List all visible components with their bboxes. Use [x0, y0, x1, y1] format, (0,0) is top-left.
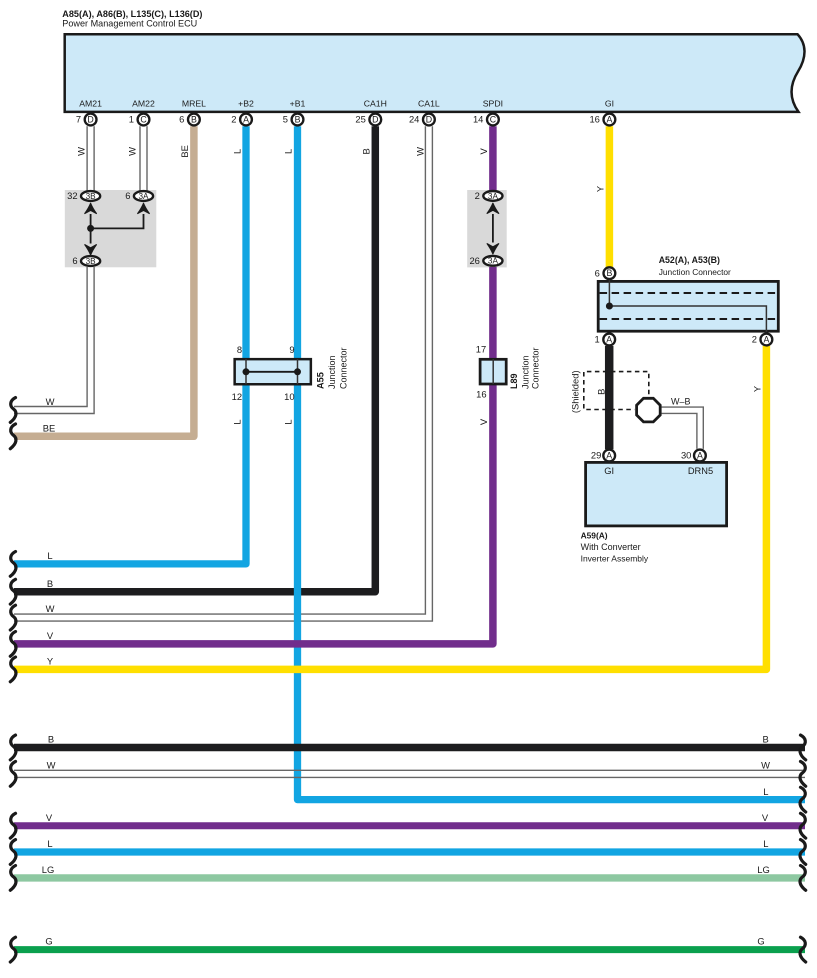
svg-text:W–B: W–B — [671, 397, 691, 407]
svg-text:6: 6 — [72, 255, 77, 266]
svg-text:GI: GI — [605, 99, 614, 109]
bus L bottom — [14, 848, 805, 855]
svg-text:LG: LG — [42, 864, 55, 875]
pin 30(A) of A59 — [681, 450, 706, 462]
svg-text:3B: 3B — [86, 257, 97, 266]
svg-text:6: 6 — [595, 267, 600, 278]
svg-text:Junction Connector: Junction Connector — [659, 267, 731, 277]
svg-text:B: B — [47, 578, 53, 589]
wire B from CA1H to left edge — [14, 126, 375, 592]
svg-text:3B: 3B — [86, 192, 97, 201]
wire Y from A52 pin 2(A) to left edge — [14, 346, 766, 670]
svg-text:26: 26 — [469, 255, 479, 266]
connector oval 6(3A) — [125, 190, 153, 201]
svg-text:V: V — [478, 148, 489, 155]
svg-text:16: 16 — [476, 388, 486, 399]
wire L from +B1 through A55 down to bottom right bus — [298, 126, 806, 799]
junction connector A55 — [232, 344, 349, 402]
connector oval 32(3B) — [67, 190, 100, 201]
svg-text:W: W — [414, 147, 425, 156]
svg-text:BE: BE — [43, 422, 56, 433]
svg-text:AM22: AM22 — [132, 99, 155, 109]
svg-text:G: G — [45, 936, 52, 947]
connector oval 6(3B) — [72, 255, 100, 266]
svg-text:8: 8 — [237, 344, 242, 355]
svg-text:25: 25 — [355, 114, 365, 125]
junction connector A52(A), A53(B) — [598, 255, 778, 332]
svg-text:5: 5 — [283, 114, 288, 125]
svg-text:B: B — [295, 115, 301, 125]
pin +B1 5(B) — [283, 99, 306, 126]
connector oval 26(3A) — [469, 255, 502, 266]
svg-text:B: B — [606, 268, 612, 278]
left break squiggles — [10, 398, 16, 962]
svg-text:LG: LG — [757, 864, 770, 875]
svg-text:9: 9 — [289, 344, 294, 355]
bus LG bottom — [14, 874, 805, 881]
svg-text:2: 2 — [752, 334, 757, 345]
svg-text:Connector: Connector — [339, 347, 349, 389]
svg-text:D: D — [372, 115, 378, 125]
svg-text:29: 29 — [591, 450, 601, 461]
svg-text:Y: Y — [47, 656, 54, 667]
svg-text:L: L — [47, 838, 52, 849]
pin CA1H 25(D) — [355, 99, 387, 126]
bus G bottom — [14, 946, 805, 953]
svg-text:CA1L: CA1L — [418, 99, 440, 109]
svg-text:1: 1 — [129, 114, 134, 125]
arrow up into 6(3A) — [138, 203, 150, 213]
svg-text:A: A — [243, 115, 249, 125]
pin 6(B) of A52 — [595, 267, 616, 279]
svg-text:DRN5: DRN5 — [688, 466, 713, 476]
ECU title A85(A), A86(B), L135(C), L136(D) — [62, 9, 202, 28]
svg-text:3A: 3A — [488, 257, 499, 266]
wire W-B from shield to 30(A) — [662, 407, 704, 449]
svg-text:B: B — [191, 115, 197, 125]
svg-text:16: 16 — [589, 114, 599, 125]
svg-text:GI: GI — [604, 466, 614, 476]
A59 With Converter Inverter Assembly box — [581, 462, 727, 563]
svg-text:30: 30 — [681, 450, 691, 461]
arrow up into 32(3B) — [85, 203, 97, 213]
svg-text:Y: Y — [751, 385, 762, 392]
svg-text:D: D — [87, 115, 93, 125]
svg-text:With Converter: With Converter — [581, 542, 641, 552]
svg-text:L: L — [283, 419, 294, 424]
svg-text:C: C — [140, 115, 147, 125]
svg-text:W: W — [127, 147, 138, 156]
svg-text:Power Management Control ECU: Power Management Control ECU — [62, 19, 197, 29]
svg-text:L: L — [283, 149, 294, 154]
pin 2(A) of A52 — [752, 334, 773, 346]
svg-text:B: B — [361, 148, 372, 154]
svg-text:1: 1 — [594, 334, 599, 345]
svg-text:D: D — [426, 115, 432, 125]
svg-text:L: L — [763, 838, 768, 849]
svg-text:A: A — [606, 115, 612, 125]
svg-text:B: B — [762, 734, 768, 745]
svg-text:Junction: Junction — [327, 355, 337, 389]
svg-text:10: 10 — [284, 391, 294, 402]
wire W from AM21 to 32(3B) — [87, 126, 94, 190]
svg-text:+B1: +B1 — [290, 99, 306, 109]
pin +B2 2(A) — [231, 99, 254, 126]
svg-text:L: L — [47, 550, 52, 561]
wire B shielded from 1(A) to 29(A) — [605, 346, 614, 449]
wire Y from GI to A52 pin 6(B) — [606, 126, 614, 267]
svg-text:Inverter Assembly: Inverter Assembly — [581, 553, 649, 563]
svg-text:2: 2 — [475, 190, 480, 201]
shield dashed box — [584, 372, 649, 410]
svg-text:A55: A55 — [316, 372, 326, 389]
right break squiggles — [800, 735, 806, 962]
svg-text:B: B — [595, 389, 606, 395]
wire BE from MREL to left edge — [14, 126, 194, 436]
svg-text:A: A — [606, 335, 612, 345]
svg-text:L: L — [763, 786, 768, 797]
svg-text:B: B — [48, 734, 54, 745]
svg-text:2: 2 — [231, 114, 236, 125]
svg-text:W: W — [46, 396, 55, 407]
wire W from 6(3B) to left edge — [14, 267, 94, 414]
pin 1(A) of A52 — [594, 334, 615, 346]
arrow down into 26(3A) — [487, 244, 499, 254]
svg-text:A: A — [697, 451, 703, 461]
svg-text:CA1H: CA1H — [364, 99, 387, 109]
svg-text:17: 17 — [476, 344, 486, 355]
svg-text:V: V — [46, 812, 53, 823]
svg-text:L: L — [232, 419, 243, 424]
wire V from 26(3A) through L89 to left edge — [14, 267, 493, 644]
junction arrows and node in gray box 1 — [91, 214, 144, 244]
svg-text:3A: 3A — [488, 192, 499, 201]
svg-text:G: G — [757, 936, 764, 947]
svg-text:BE: BE — [179, 145, 190, 158]
wire L from +B2 through A55 to left edge — [14, 126, 246, 564]
wire W from AM22 to 6(3A) — [140, 126, 147, 190]
svg-text:32: 32 — [67, 190, 77, 201]
svg-text:AM21: AM21 — [79, 99, 102, 109]
ECU box A85/A86/L135/L136 — [65, 34, 805, 112]
arrow up into 2(3A) — [487, 203, 499, 213]
svg-text:6: 6 — [179, 114, 184, 125]
svg-text:3A: 3A — [138, 192, 149, 201]
pin GI 16(A) — [589, 99, 615, 126]
junction connector L89 — [476, 344, 541, 400]
svg-text:A59(A): A59(A) — [581, 531, 608, 541]
node dot gray box 1 — [87, 225, 94, 232]
svg-text:12: 12 — [232, 391, 242, 402]
pin MREL 6(B) — [179, 99, 206, 126]
wire V from SPDI upper segment — [489, 126, 497, 190]
shield ground octagon — [637, 398, 661, 422]
svg-text:14: 14 — [473, 114, 483, 125]
junction block gray box 1 (3A/3B) — [65, 190, 157, 267]
svg-text:L: L — [232, 149, 243, 154]
svg-text:7: 7 — [76, 114, 81, 125]
pin AM21 7(D) — [76, 99, 102, 126]
svg-text:+B2: +B2 — [238, 99, 254, 109]
wire W from CA1L to left edge — [14, 126, 432, 621]
svg-text:A: A — [606, 451, 612, 461]
bus W bottom — [14, 770, 805, 777]
svg-text:C: C — [490, 115, 497, 125]
pin AM22 1(C) — [129, 99, 155, 126]
svg-text:W: W — [75, 147, 86, 156]
pin 29(A) of A59 — [591, 450, 615, 462]
svg-text:A52(A), A53(B): A52(A), A53(B) — [659, 255, 720, 265]
svg-text:A: A — [763, 335, 769, 345]
svg-text:Y: Y — [594, 185, 605, 192]
connector oval 2(3A) — [475, 190, 503, 201]
pin SPDI 14(C) — [473, 99, 503, 126]
svg-text:W: W — [46, 603, 55, 614]
svg-text:MREL: MREL — [182, 99, 206, 109]
bus V bottom — [14, 822, 805, 829]
svg-text:W: W — [761, 759, 770, 770]
svg-text:Junction: Junction — [521, 355, 531, 389]
svg-text:6: 6 — [125, 190, 130, 201]
svg-text:24: 24 — [409, 114, 419, 125]
svg-text:W: W — [47, 759, 56, 770]
svg-text:(Shielded): (Shielded) — [570, 370, 581, 413]
junction arrows in gray box 2 — [492, 214, 494, 243]
svg-text:V: V — [478, 418, 489, 425]
svg-text:SPDI: SPDI — [483, 99, 503, 109]
svg-text:L89: L89 — [509, 373, 519, 389]
junction block gray box 2 (3A) — [467, 190, 507, 267]
pin CA1L 24(D) — [409, 99, 440, 126]
bus B bottom — [14, 744, 805, 752]
svg-text:V: V — [762, 812, 769, 823]
svg-text:V: V — [47, 630, 54, 641]
svg-text:Connector: Connector — [531, 347, 541, 389]
arrow down into 6(3B) — [85, 245, 97, 255]
